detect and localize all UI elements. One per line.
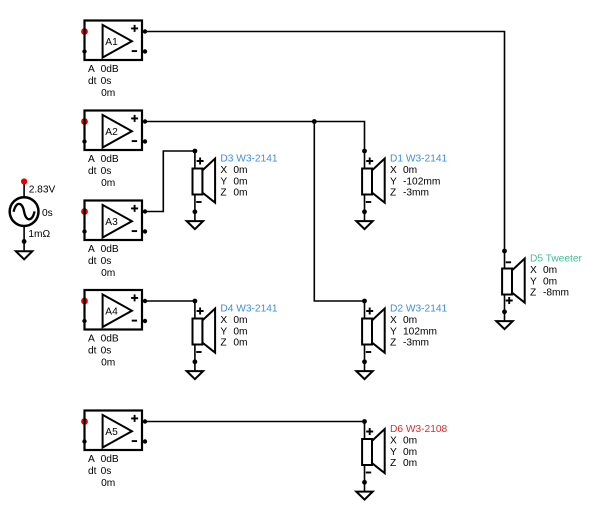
svg-text:0s: 0s	[101, 345, 112, 356]
ground at D1	[356, 221, 372, 229]
svg-text:dt: dt	[88, 466, 97, 477]
svg-text:Y: Y	[390, 176, 397, 187]
amplifier A5 input + terminal (red)	[81, 418, 88, 425]
amplifier A4	[85, 290, 143, 330]
wire D5 top terminal to speaker	[504, 251, 506, 269]
label D1 XYZ position	[390, 165, 440, 199]
svg-text:Z: Z	[390, 458, 396, 469]
svg-text:0s: 0s	[101, 256, 112, 267]
svg-text:0m: 0m	[233, 315, 247, 326]
amplifier A2	[85, 111, 143, 151]
A2 output + pin	[143, 119, 147, 123]
amplifier A2 input - terminal	[82, 139, 86, 143]
svg-text:0dB: 0dB	[101, 154, 119, 165]
svg-text:Z: Z	[220, 338, 226, 349]
svg-text:D6 W3-2108: D6 W3-2108	[390, 424, 448, 435]
wire A2+ to D1	[142, 122, 365, 152]
wire V1 bottom to ground	[23, 226, 25, 251]
svg-text:Z: Z	[220, 188, 226, 199]
A3 value label A 0dB dt 0s 0m	[88, 244, 119, 279]
node D5 bottom junction	[502, 309, 507, 314]
svg-text:X: X	[390, 165, 397, 176]
svg-text:0m: 0m	[403, 447, 417, 458]
svg-text:X: X	[390, 315, 397, 326]
speaker D3	[193, 158, 216, 203]
svg-text:-3mm: -3mm	[403, 188, 429, 199]
svg-text:0m: 0m	[403, 315, 417, 326]
svg-text:0m: 0m	[403, 165, 417, 176]
svg-text:-102mm: -102mm	[403, 176, 440, 187]
wire D1 bottom terminal to ground	[364, 195, 366, 222]
svg-text:X: X	[220, 165, 227, 176]
svg-text:0m: 0m	[233, 165, 247, 176]
node D5 top junction	[502, 249, 507, 254]
svg-text:0m: 0m	[101, 478, 115, 489]
ground at D3	[187, 221, 203, 229]
svg-text:A: A	[88, 64, 95, 75]
A2 value label A 0dB dt 0s 0m	[88, 154, 119, 189]
node V1 - junction	[22, 239, 27, 244]
speaker D6	[362, 428, 385, 473]
ground at D6	[356, 492, 372, 500]
svg-text:A5: A5	[105, 427, 118, 438]
A1 value label A 0dB dt 0s 0m	[88, 64, 119, 99]
amplifier A3 input + terminal (red)	[81, 208, 88, 215]
node D4 bottom junction	[193, 359, 198, 364]
ground at D2	[356, 371, 372, 379]
svg-text:Y: Y	[390, 326, 397, 337]
svg-text:Z: Z	[390, 338, 396, 349]
A4 value label A 0dB dt 0s 0m	[88, 333, 119, 368]
svg-text:dt: dt	[88, 345, 97, 356]
svg-text:0s: 0s	[101, 466, 112, 477]
ground at D4	[187, 371, 203, 379]
node D3 bottom junction	[193, 209, 198, 214]
wire D4 bottom terminal to ground	[194, 345, 196, 372]
svg-text:A: A	[88, 333, 95, 344]
wire A5+ to D6	[142, 421, 365, 423]
A4 output - pin	[143, 319, 147, 323]
wire D3 bottom terminal to ground	[194, 195, 196, 222]
A1 output - pin	[143, 49, 147, 53]
wire D2 bottom terminal to ground	[364, 345, 366, 372]
A5 output - pin	[143, 439, 147, 443]
label D4 XYZ position	[220, 315, 247, 349]
ground at V1	[16, 251, 32, 259]
node D2 bottom junction	[362, 359, 367, 364]
svg-text:Y: Y	[530, 276, 537, 287]
svg-text:0m: 0m	[233, 176, 247, 187]
svg-text:2.83V: 2.83V	[29, 185, 56, 196]
svg-text:1mΩ: 1mΩ	[28, 229, 50, 240]
node D1 bottom junction	[362, 209, 367, 214]
svg-text:0s: 0s	[101, 166, 112, 177]
A2 output - pin	[143, 139, 147, 143]
wire V1 top terminal	[23, 182, 25, 198]
svg-text:dt: dt	[88, 166, 97, 177]
node A2/D2 T-junction	[312, 119, 317, 124]
svg-text:0dB: 0dB	[101, 333, 119, 344]
amplifier A5 input - terminal	[82, 439, 86, 443]
wire D1 top terminal to speaker	[364, 151, 366, 169]
svg-text:D1 W3-2141: D1 W3-2141	[390, 154, 448, 165]
svg-text:0m: 0m	[543, 265, 557, 276]
svg-text:0dB: 0dB	[101, 454, 119, 465]
svg-text:0m: 0m	[101, 357, 115, 368]
svg-text:0m: 0m	[233, 188, 247, 199]
wire A2 branch to D2	[314, 122, 364, 302]
speaker D1	[362, 158, 385, 203]
svg-text:X: X	[390, 435, 397, 446]
amplifier A4 input - terminal	[82, 319, 86, 323]
svg-text:A2: A2	[105, 127, 118, 138]
A5 output + pin	[143, 419, 147, 423]
svg-text:A: A	[88, 454, 95, 465]
svg-text:0m: 0m	[403, 458, 417, 469]
svg-text:D3 W3-2141: D3 W3-2141	[220, 154, 278, 165]
svg-text:X: X	[530, 265, 537, 276]
A5 value label A 0dB dt 0s 0m	[88, 454, 119, 489]
svg-text:0m: 0m	[543, 276, 557, 287]
node D2 top junction	[362, 299, 367, 304]
speaker D2	[362, 308, 385, 353]
svg-text:D4 W3-2141: D4 W3-2141	[220, 304, 278, 315]
svg-text:0m: 0m	[233, 338, 247, 349]
amplifier A4 input + terminal (red)	[81, 298, 88, 305]
amplifier A1	[85, 21, 143, 61]
label D5 XYZ position	[530, 265, 569, 299]
svg-text:A3: A3	[105, 217, 118, 228]
wire A1+ to D5	[142, 32, 505, 252]
svg-text:0m: 0m	[403, 435, 417, 446]
svg-text:-3mm: -3mm	[403, 338, 429, 349]
node D6 bottom junction	[362, 480, 367, 485]
svg-text:A: A	[88, 154, 95, 165]
svg-text:D2 W3-2141: D2 W3-2141	[390, 304, 448, 315]
svg-text:A: A	[88, 244, 95, 255]
node D4 top junction	[193, 299, 198, 304]
speaker D5	[502, 259, 525, 305]
svg-text:Z: Z	[530, 288, 536, 299]
svg-text:0m: 0m	[101, 268, 115, 279]
svg-text:A1: A1	[105, 37, 118, 48]
label D3 XYZ position	[220, 165, 247, 199]
wire D6 bottom terminal to ground	[364, 465, 366, 492]
label D6 XYZ position	[390, 435, 417, 469]
node D1 top junction	[362, 149, 367, 154]
A3 output - pin	[143, 229, 147, 233]
wire A3+ to D3	[142, 151, 195, 212]
svg-text:Y: Y	[220, 176, 227, 187]
amplifier A2 input + terminal (red)	[81, 118, 88, 125]
svg-text:X: X	[220, 315, 227, 326]
wire D3 top terminal to speaker	[194, 151, 196, 169]
ground at D5	[496, 321, 512, 329]
node D3 top junction	[193, 149, 198, 154]
wire D6 top terminal to speaker	[364, 422, 366, 440]
svg-text:0s: 0s	[101, 76, 112, 87]
svg-text:102mm: 102mm	[403, 326, 437, 337]
svg-text:0dB: 0dB	[101, 244, 119, 255]
amplifier A3	[85, 201, 143, 241]
svg-text:0dB: 0dB	[101, 64, 119, 75]
amplifier A1 input - terminal	[82, 49, 86, 53]
node D6 top junction	[362, 419, 367, 424]
svg-text:dt: dt	[88, 256, 97, 267]
svg-text:Y: Y	[390, 447, 397, 458]
A1 output + pin	[143, 29, 147, 33]
wire D2 top terminal to speaker	[364, 301, 366, 319]
svg-text:Z: Z	[390, 188, 396, 199]
svg-text:0m: 0m	[233, 326, 247, 337]
svg-text:0m: 0m	[101, 178, 115, 189]
wire A4+ to D4	[142, 300, 195, 302]
amplifier A1 input + terminal (red)	[81, 28, 88, 35]
svg-text:dt: dt	[88, 76, 97, 87]
node V1 + terminal (red)	[21, 178, 27, 184]
A3 output + pin	[143, 209, 147, 213]
voltage source V1	[10, 197, 39, 226]
svg-text:A4: A4	[105, 306, 118, 317]
svg-text:Y: Y	[220, 326, 227, 337]
speaker D4	[193, 308, 216, 353]
wire D4 top terminal to speaker	[194, 301, 196, 319]
A4 output + pin	[143, 299, 147, 303]
svg-text:0s: 0s	[42, 208, 53, 219]
svg-text:-8mm: -8mm	[543, 288, 569, 299]
label D2 XYZ position	[390, 315, 437, 349]
amplifier A3 input - terminal	[82, 229, 86, 233]
svg-text:D5 Tweeter: D5 Tweeter	[530, 254, 583, 265]
wire D5 bottom terminal to ground	[504, 295, 506, 322]
svg-text:0m: 0m	[101, 88, 115, 99]
amplifier A5	[85, 411, 143, 451]
